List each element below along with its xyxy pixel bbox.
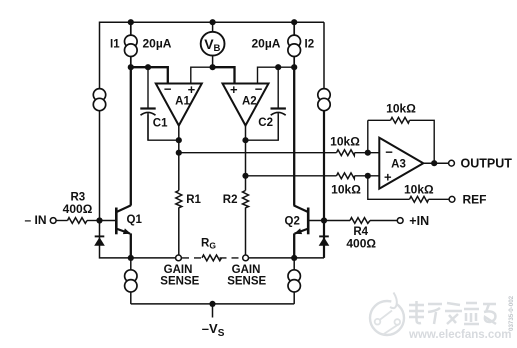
transistor Q2 — [294, 205, 309, 234]
wire A1 plus input to VB node — [191, 67, 213, 84]
wire A2 output stem — [245, 125, 247, 176]
wire A1 output stem — [178, 125, 180, 153]
svg-text:400Ω: 400Ω — [346, 237, 376, 251]
svg-text:www.elecfans.com: www.elecfans.com — [408, 329, 511, 341]
svg-text:400Ω: 400Ω — [63, 202, 93, 216]
node dot A3 upper input — [365, 150, 371, 156]
terminal +IN — [397, 218, 403, 224]
svg-text:GAIN: GAIN — [232, 264, 261, 276]
wire gain sense left segment — [131, 257, 176, 259]
current mirror bottom right — [288, 270, 300, 292]
svg-text:Q2: Q2 — [285, 216, 300, 228]
wire I1 stem top — [130, 22, 132, 35]
watermark chinese text — [409, 301, 496, 324]
svg-text:R1: R1 — [186, 194, 201, 206]
node dot C2 top — [275, 64, 281, 70]
resistor R1 — [176, 191, 182, 208]
wire A1 output to A3 upper input — [179, 152, 337, 154]
wire C2 bottom to A2 output — [246, 115, 279, 141]
wire Q1 base — [100, 220, 116, 222]
terminal gain sense left — [176, 255, 182, 261]
wire feedback left vertical — [367, 120, 369, 152]
voltage source VB — [201, 32, 225, 56]
wire Q2 emitter vertical — [293, 233, 295, 258]
wire -IN terminal to R3 — [56, 220, 68, 222]
resistor 10k ref — [410, 196, 429, 202]
op-amp A1 — [156, 84, 202, 126]
diode right — [319, 236, 330, 245]
node dot I1 bottom — [128, 64, 134, 70]
svg-text:10kΩ: 10kΩ — [331, 183, 361, 197]
node dot top VB — [210, 19, 216, 25]
wire C1 bottom to A1 output — [148, 115, 179, 141]
svg-text:20µA: 20µA — [143, 37, 172, 51]
wire Q1 emitter vertical — [130, 233, 132, 258]
wire upper 10k to A3 — [355, 152, 380, 154]
svg-text:A1: A1 — [175, 95, 190, 107]
wire I2 stem top — [293, 22, 295, 35]
wire A2 output to A3 lower input — [246, 175, 337, 177]
op-amp A3 — [379, 138, 423, 189]
watermark logo — [370, 293, 404, 336]
svg-text:I1: I1 — [110, 38, 120, 50]
current source I1 — [125, 35, 138, 56]
wire bottom mirror left stem top — [130, 258, 132, 270]
wire R4 right — [370, 220, 397, 222]
svg-text:20µA: 20µA — [252, 37, 281, 51]
wire A3 output — [423, 162, 448, 164]
wire C2 stem — [277, 67, 279, 107]
wire Q2 collector vertical — [293, 67, 295, 205]
wire R2 top stem — [245, 176, 247, 191]
wire gain sense dashed left — [182, 257, 202, 259]
wire A2 minus input to node — [258, 67, 279, 84]
svg-text:10kΩ: 10kΩ — [404, 183, 434, 197]
wire VB stem bottom — [212, 56, 214, 68]
wire gain sense dashed right — [220, 257, 243, 259]
node dot Q1 emitter — [128, 255, 134, 261]
node dot top I2 — [291, 19, 297, 25]
svg-text:A3: A3 — [391, 158, 406, 170]
wire left diode branch — [100, 221, 131, 258]
resistor R3 — [68, 218, 88, 224]
wire lower 10k to A3 — [355, 175, 380, 177]
node dot -VS — [209, 301, 215, 307]
diode left — [94, 236, 105, 245]
current mirror bottom left — [125, 270, 137, 292]
wire gain sense right segment — [249, 257, 295, 259]
svg-text:– IN: – IN — [24, 213, 46, 227]
terminal -IN — [50, 218, 56, 224]
resistor 10k upper input — [337, 150, 355, 156]
wire node to I2 rail — [278, 66, 294, 68]
node dot Q2 base — [321, 217, 327, 223]
wire I2 stem bottom — [293, 56, 295, 67]
svg-text:Q1: Q1 — [127, 214, 143, 226]
wire feedback top right — [410, 120, 435, 163]
wire -VS stem — [212, 304, 214, 318]
capacitor C2 — [271, 109, 286, 141]
wire VB node to A2 plus input — [213, 67, 235, 84]
wire left mirror stems — [99, 89, 101, 111]
resistor 10k lower input — [337, 173, 355, 179]
svg-text:R2: R2 — [223, 194, 238, 206]
svg-text:C2: C2 — [258, 117, 273, 129]
wire top rail — [100, 22, 325, 220]
node dot R1 top tap — [176, 150, 182, 156]
wire REF resistor to terminal — [429, 198, 450, 200]
resistor RG external — [202, 255, 222, 261]
node dot R2 tap — [242, 173, 248, 179]
wire R1 bottom stem — [178, 208, 180, 256]
wire right diode bottom corner — [294, 257, 324, 259]
svg-text:10kΩ: 10kΩ — [386, 102, 416, 116]
node dot A1 output — [176, 137, 182, 143]
svg-text:SENSE: SENSE — [227, 276, 266, 288]
svg-text:A2: A2 — [242, 95, 257, 107]
wire Q1 collector vertical — [130, 67, 132, 205]
terminal OUTPUT — [449, 160, 455, 166]
node dot Q1 base — [96, 217, 102, 223]
svg-text:SENSE: SENSE — [160, 276, 199, 288]
wire Q2 base — [309, 220, 324, 222]
wire I1 stem bottom — [130, 56, 132, 67]
resistor R2 — [243, 191, 249, 208]
node dot Q2 emitter — [291, 255, 297, 261]
svg-text:REF: REF — [463, 193, 487, 207]
node dot C1 top — [145, 64, 151, 70]
resistor 10k feedback — [391, 117, 410, 123]
svg-text:C1: C1 — [153, 117, 168, 129]
svg-text:+: + — [384, 169, 392, 184]
node dot I2 bottom — [291, 64, 297, 70]
wire feedback top left — [368, 119, 391, 121]
terminal gain sense right — [243, 255, 249, 261]
svg-text:−: − — [255, 81, 263, 96]
wire bottom mirror left stem bottom — [130, 292, 132, 304]
wire right rail lower — [323, 111, 325, 258]
current source I2 — [288, 35, 301, 56]
wire bottom mirror right stem bottom — [293, 292, 295, 304]
current mirror right — [318, 89, 330, 111]
transistor Q1 — [116, 205, 131, 234]
node dot A3 output — [431, 160, 437, 166]
svg-text:I2: I2 — [305, 38, 315, 50]
wire R1 top stem — [178, 153, 180, 191]
wire R3 to base node — [87, 220, 100, 222]
node dot top I1 — [128, 19, 134, 25]
wire node67 to A1 minus input — [131, 67, 168, 84]
svg-text:10kΩ: 10kΩ — [330, 135, 360, 149]
svg-text:OUTPUT: OUTPUT — [461, 156, 513, 170]
svg-text:−: − — [164, 81, 172, 96]
wire REF branch vertical — [368, 176, 410, 200]
wire bottom mirror right stem top — [293, 258, 295, 270]
wire VB stem top — [212, 22, 214, 32]
terminal REF — [449, 196, 455, 202]
wire R2 bottom stem — [245, 208, 247, 256]
capacitor C1 — [140, 109, 155, 141]
wire C1 stem — [147, 67, 149, 107]
svg-text:GAIN: GAIN — [164, 264, 193, 276]
svg-text:+IN: +IN — [409, 214, 429, 228]
svg-text:+: + — [230, 82, 238, 97]
node dot A3 lower input — [365, 173, 371, 179]
op-amp A2 — [223, 84, 269, 126]
resistor R4 — [350, 218, 370, 224]
node dot A2 output — [242, 137, 248, 143]
current mirror left — [93, 89, 105, 111]
svg-text:03735-0-002: 03735-0-002 — [508, 295, 515, 331]
wire bottom rail — [131, 303, 294, 305]
node dot VB bottom — [210, 64, 216, 70]
wire R4 left — [324, 220, 350, 222]
wire right rail upper — [323, 22, 325, 89]
